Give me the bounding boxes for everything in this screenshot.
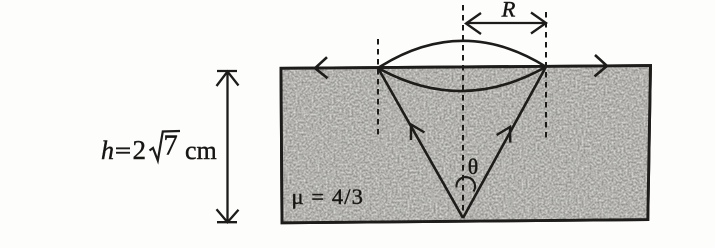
- R dimension arrow shaft: [466, 22, 545, 24]
- svg-text:7: 7: [164, 131, 178, 162]
- R arrow right head: [531, 13, 546, 34]
- label: equals sign bottom bar: [116, 152, 130, 154]
- surface arrow left: [315, 57, 328, 78]
- h arrow bottom head: [217, 209, 239, 222]
- water tank border: [281, 66, 651, 223]
- light cone left ray: [378, 68, 463, 218]
- svg-text:θ: θ: [468, 154, 479, 179]
- water tank rectangle: [281, 66, 651, 223]
- svg-text:h: h: [101, 136, 114, 165]
- right dashed vertical line: [545, 12, 547, 140]
- h arrow bottom tick bar: [217, 221, 237, 223]
- h dimension arrow shaft: [226, 72, 228, 222]
- svg-text:μ = 4/3: μ = 4/3: [292, 184, 364, 209]
- h arrow top tick bar: [217, 70, 237, 72]
- svg-text:R: R: [501, 0, 516, 22]
- radical sign with vinculum: [150, 131, 181, 161]
- svg-text:2: 2: [133, 135, 147, 165]
- right ray arrowhead: [497, 127, 511, 143]
- water tank texture overlay: [281, 66, 651, 223]
- h arrow top head: [217, 72, 239, 87]
- surface arrow right: [595, 55, 608, 76]
- left dashed vertical line: [377, 39, 379, 135]
- R arrow left head: [466, 13, 481, 34]
- lens bottom arc: [378, 67, 546, 91]
- label: equals sign top bar: [116, 147, 130, 149]
- center dashed vertical line: [462, 5, 464, 215]
- theta angle arc: [456, 177, 475, 191]
- light cone right ray: [463, 67, 546, 218]
- left ray arrowhead: [411, 125, 425, 141]
- lens (illuminated circle) top arc: [378, 41, 546, 68]
- svg-text:cm: cm: [185, 136, 217, 165]
